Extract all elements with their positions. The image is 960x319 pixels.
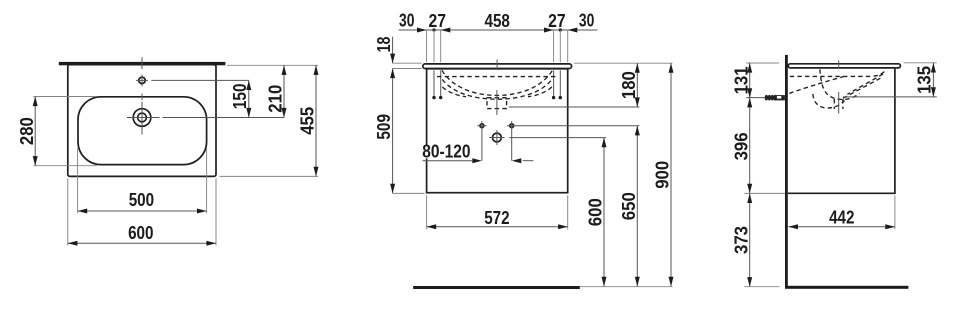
drain outlet line: [509, 106, 640, 108]
extension line top right: [227, 64, 318, 66]
floor ext left: [744, 286, 779, 288]
rim dashed: [790, 72, 885, 77]
drain cup dashed: [813, 94, 845, 108]
floor thick: [413, 286, 580, 289]
faucet horizontal crosshair: [127, 117, 160, 119]
dim 600: [585, 138, 607, 287]
dim 373: [730, 193, 752, 286]
centerline tick countertop: [496, 60, 498, 71]
faucet vertical centerline: [141, 102, 143, 135]
wall valve: [765, 95, 785, 101]
countertop side: [788, 64, 900, 68]
basin outline: [78, 97, 207, 165]
wall: [785, 55, 788, 289]
dim 500: [78, 148, 207, 214]
drain centerline: [838, 92, 840, 114]
drain crosshair: [493, 133, 502, 142]
svg-text:458: 458: [485, 10, 510, 31]
basin rim dashed: [437, 76, 557, 78]
overflow horizontal tick: [136, 79, 148, 81]
svg-text:509: 509: [373, 114, 394, 140]
dim 150: [229, 80, 252, 117]
fixing hole right: [510, 124, 514, 128]
cabinet body: [427, 69, 568, 193]
svg-text:131: 131: [730, 66, 751, 94]
overflow vertical tick: [141, 75, 143, 87]
faucet hole outer: [133, 109, 151, 127]
bowl inner dashed: [442, 80, 552, 100]
bowl outer dashed: [442, 70, 552, 95]
centerline drain: [496, 90, 498, 115]
svg-text:600: 600: [128, 222, 153, 243]
top chain dimension line: [399, 29, 598, 31]
bowl profile dashed: [820, 69, 860, 99]
overflow line to 150 dim: [151, 79, 249, 81]
centerline tick countertop: [838, 60, 840, 68]
arrow 458 left: [441, 28, 451, 33]
back profile dashed: [789, 77, 843, 94]
fixing pins: [433, 70, 435, 96]
svg-text:80-120: 80-120: [422, 141, 470, 162]
valve centerline ext: [746, 97, 765, 99]
dim 572: [427, 195, 568, 229]
dim 180: [574, 63, 672, 107]
svg-text:600: 600: [585, 198, 606, 226]
dim 442: [788, 195, 895, 229]
arrow 30 right: [568, 28, 578, 33]
right diagonal dashed 2: [843, 78, 881, 98]
dim 18: [373, 37, 422, 194]
dim 650: [618, 126, 640, 287]
top right ext: [904, 62, 937, 64]
svg-text:27: 27: [548, 10, 566, 31]
svg-text:150: 150: [229, 83, 250, 109]
drain box dashed: [487, 98, 507, 109]
centerline tick basin edge: [141, 94, 143, 100]
drain pipe dashed left: [833, 99, 835, 109]
drain pipe dashed right: [842, 99, 844, 109]
ceramic body: [68, 65, 216, 177]
dim 135: [914, 63, 936, 97]
arrow 30 left: [417, 28, 427, 33]
svg-text:180: 180: [618, 71, 639, 99]
svg-text:442: 442: [829, 206, 854, 227]
pin dots: [432, 96, 435, 99]
svg-text:455: 455: [297, 107, 318, 135]
dim 131: [730, 63, 752, 98]
bowl strand left: [442, 87, 466, 97]
svg-text:500: 500: [129, 189, 154, 210]
svg-text:18: 18: [373, 37, 394, 53]
top left ext: [746, 62, 779, 64]
fixing hole left: [480, 124, 484, 128]
arrow 458 right: [544, 28, 554, 33]
svg-text:900: 900: [652, 161, 673, 189]
overflow hole: [139, 77, 145, 83]
svg-text:135: 135: [914, 66, 935, 94]
svg-text:650: 650: [618, 192, 639, 220]
right diagonal dashed 1: [847, 74, 883, 94]
floor: [785, 286, 908, 289]
dim 396: [730, 98, 752, 194]
dot 27 left: [432, 28, 435, 31]
floor extension thin: [580, 286, 673, 288]
cabinet side: [788, 69, 895, 194]
svg-text:210: 210: [265, 85, 286, 113]
drain level line: [843, 96, 937, 98]
dot 27 right: [559, 28, 562, 31]
bowl strand right: [528, 87, 552, 97]
countertop: [423, 64, 572, 69]
faucet hole inner: [138, 113, 147, 122]
svg-text:30: 30: [579, 10, 594, 31]
svg-text:27: 27: [429, 10, 447, 31]
dim 455: [220, 65, 319, 176]
svg-text:396: 396: [730, 132, 751, 160]
dim 210: [265, 65, 287, 117]
centerline tick top: [141, 57, 143, 69]
dim 900: [652, 63, 674, 286]
dim 80-120: [422, 141, 534, 164]
extension verticals from chain: [426, 30, 428, 62]
dim 280: [16, 97, 97, 166]
svg-text:30: 30: [399, 10, 414, 31]
svg-text:373: 373: [730, 226, 751, 254]
faucet line to 210 dim: [163, 117, 285, 119]
wall bar: [59, 62, 226, 65]
dim 600: [68, 178, 216, 245]
svg-text:280: 280: [16, 117, 37, 145]
cabinet bottom ext: [744, 192, 785, 194]
dim 509: [373, 114, 425, 193]
svg-text:572: 572: [484, 207, 509, 228]
